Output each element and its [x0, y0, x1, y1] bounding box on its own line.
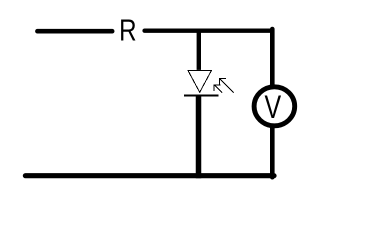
photodiode D1 cathode bar	[184, 95, 218, 97]
svg-text:V: V	[264, 90, 281, 126]
svg-text:R: R	[119, 13, 136, 48]
wire: voltmeter branch upper segment	[270, 29, 275, 86]
wire: top segment from R to voltmeter branch corner	[145, 29, 273, 33]
photodiode D1 triangle	[188, 71, 211, 93]
photodiode arrow 1 (inner, short)	[214, 85, 222, 93]
wire: voltmeter branch lower segment	[270, 126, 275, 177]
photodiode arrow 2 (outer, long)	[220, 79, 234, 93]
voltmeter V1 circle body	[254, 87, 295, 126]
wire: photodiode branch lower segment	[196, 96, 202, 179]
wire: top-left input segment	[37, 29, 112, 34]
wire: bottom return segment	[25, 173, 274, 178]
wire: photodiode branch upper segment	[197, 31, 201, 70]
